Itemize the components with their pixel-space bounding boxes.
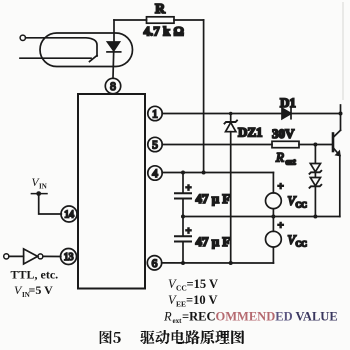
wire R drop to pin 4 rail: [203, 20, 205, 173]
pin 13: [61, 249, 77, 265]
svg-text:=10 V: =10 V: [186, 293, 218, 307]
svg-text:+: +: [278, 220, 284, 232]
svg-text:CC: CC: [176, 284, 187, 293]
wire between sources: [272, 209, 274, 232]
wire Rext to base: [299, 144, 332, 146]
label Rext=RECOMMENDED VALUE: [163, 310, 338, 326]
junction mid/cap: [181, 215, 185, 219]
svg-text:ext: ext: [286, 158, 297, 167]
wire VIN to pin 14: [39, 194, 62, 214]
svg-text:R: R: [155, 2, 166, 17]
optocoupler anode lead wire: [26, 38, 97, 56]
svg-text:=5 V: =5 V: [29, 283, 54, 297]
junction pin6/DZ1: [229, 261, 233, 265]
optocoupler cathode lead wire: [20, 57, 91, 59]
zener D3: [310, 178, 320, 186]
optocoupler input terminal: [20, 35, 25, 40]
mid rail: [183, 216, 340, 218]
resistor R: [147, 17, 175, 23]
caption figure 5 (CJK drawn as paths): [100, 330, 244, 345]
svg-text:EE: EE: [176, 300, 186, 309]
junction mid/VCC: [271, 215, 275, 219]
svg-text:ext: ext: [173, 317, 183, 325]
optocoupler internal emitter tick: [90, 56, 98, 62]
capacitor C1 47uF: [182, 173, 184, 194]
svg-text:=RECOMMENDED VALUE: =RECOMMENDED VALUE: [182, 310, 338, 324]
label VCC=15V: [168, 277, 218, 293]
svg-text:6: 6: [152, 258, 158, 270]
diode D1: [282, 108, 291, 119]
svg-text:R: R: [163, 310, 172, 324]
svg-text:=15 V: =15 V: [187, 277, 219, 291]
pin 1: [148, 106, 162, 120]
label VEE=10V: [168, 293, 218, 309]
svg-text:+: +: [186, 226, 192, 237]
svg-text:14: 14: [64, 210, 74, 221]
label VIN top: [32, 177, 47, 191]
zener D2: [310, 164, 320, 172]
svg-text:CC: CC: [296, 240, 308, 249]
capacitor C2 47uF: [182, 217, 184, 237]
junction pin4/R-drop: [202, 171, 206, 175]
junction pin4/cap1: [181, 171, 185, 175]
wire pin 1 rail: [162, 113, 340, 115]
pin 4: [148, 166, 162, 180]
svg-text:R: R: [275, 150, 284, 165]
pin 5: [148, 137, 162, 151]
wire pin4 corner down to VCC1: [272, 173, 274, 193]
wire VCC2 to pin6 rail: [272, 247, 274, 263]
inverter gate: [24, 249, 38, 264]
junction pin1/collector: [339, 112, 343, 116]
svg-text:8: 8: [110, 81, 116, 93]
svg-text:4.7 k Ω: 4.7 k Ω: [144, 24, 184, 39]
svg-text:30V: 30V: [272, 126, 295, 141]
svg-text:CC: CC: [296, 201, 308, 210]
pin 14: [61, 206, 77, 222]
svg-text:5: 5: [152, 140, 158, 152]
svg-text:+: +: [278, 181, 284, 193]
junction base/diode-stack: [313, 143, 317, 147]
svg-text:1: 1: [152, 109, 158, 121]
wire inverter to pin 13: [43, 255, 61, 257]
svg-text:13: 13: [64, 252, 74, 263]
protection zener stack line: [314, 145, 316, 217]
label VIN=5V: [14, 283, 53, 299]
svg-text:DZ1: DZ1: [238, 125, 263, 140]
svg-text:4: 4: [152, 168, 158, 180]
wire pin 5 rail to Rext: [162, 144, 272, 146]
junction pin6/cap2: [181, 261, 185, 265]
junction pin1/DZ1: [229, 112, 233, 116]
svg-text:D1: D1: [280, 95, 296, 110]
inverter input terminal: [4, 254, 9, 259]
wire pin 4 rail: [162, 172, 273, 174]
junction mid/zstack: [313, 215, 317, 219]
zener DZ1: [230, 114, 232, 123]
wire top rail right segment: [174, 19, 204, 21]
source VCC2: [266, 231, 282, 247]
svg-text:+: +: [186, 183, 192, 194]
resistor Rext: [272, 141, 299, 147]
wire top rail left segment: [114, 19, 147, 21]
transistor Q1: [332, 134, 335, 152]
wire diode anode down to pin 8: [112, 51, 115, 78]
source VCC1: [266, 193, 282, 209]
svg-text:47 μ F: 47 μ F: [196, 234, 231, 249]
svg-text:47 μ F: 47 μ F: [196, 191, 231, 206]
svg-text:TTL, etc.: TTL, etc.: [11, 268, 59, 282]
optocoupler body: [40, 33, 133, 67]
wire pin 6 rail: [162, 262, 274, 264]
node VIN tick: [31, 193, 47, 195]
wire terminal to inverter: [9, 255, 24, 257]
pin 8: [105, 78, 120, 93]
svg-text:IN: IN: [39, 183, 47, 191]
optocoupler output diode: [108, 42, 120, 51]
pin 6: [147, 256, 161, 270]
driver IC block: [78, 94, 145, 289]
wire diode cathode up to top rail: [113, 20, 115, 42]
